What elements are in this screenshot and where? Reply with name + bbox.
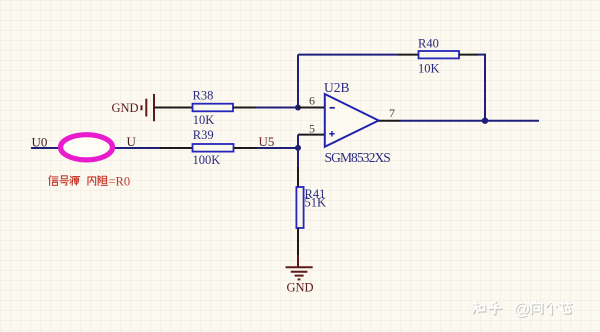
resistor R38 xyxy=(193,104,234,112)
annotation red text: 信号源 内阻=R0 xyxy=(49,176,107,186)
power ground GND (top-left power port) xyxy=(142,94,155,121)
svg-text:6: 6 xyxy=(309,94,315,108)
wire R39 to node U5 xyxy=(234,147,257,149)
wire node U5 down to R41 xyxy=(297,148,299,167)
wire feedback down to output node xyxy=(484,54,486,121)
svg-text:U2B: U2B xyxy=(324,80,350,95)
wire R38 to node 6 (black pin lead then navy wire) xyxy=(233,107,256,109)
wire pin5 down to node U5 xyxy=(297,135,299,148)
junction node 6 xyxy=(295,105,301,111)
svg-text:U: U xyxy=(127,134,137,149)
wire node 6 up to feedback xyxy=(297,55,299,108)
watermark: 知乎 @问个芯 xyxy=(473,302,572,314)
wire output to right xyxy=(400,120,539,122)
svg-text:@: @ xyxy=(513,300,530,319)
svg-text:U5: U5 xyxy=(259,134,275,149)
wire GND to R38 xyxy=(154,107,193,109)
op-amp U2B xyxy=(325,94,379,147)
resistor R40 xyxy=(419,51,460,58)
wire R41 to ground xyxy=(297,228,299,255)
svg-text:=R0: =R0 xyxy=(109,174,131,188)
wire feedback top run xyxy=(298,54,398,56)
svg-text:R38: R38 xyxy=(193,89,214,103)
op-amp minus input mark xyxy=(330,107,335,109)
pin 7 output lead xyxy=(379,120,400,122)
junction output node xyxy=(482,118,488,124)
svg-text:100K: 100K xyxy=(193,153,221,167)
svg-text:10K: 10K xyxy=(418,62,440,76)
svg-text:GND: GND xyxy=(287,281,314,295)
wire U0 input line xyxy=(31,147,160,149)
svg-text:10K: 10K xyxy=(193,113,215,127)
junction node U5 xyxy=(295,145,301,151)
svg-text:GND: GND xyxy=(112,101,139,115)
svg-text:5: 5 xyxy=(309,122,315,136)
svg-text:R40: R40 xyxy=(418,37,439,51)
pin 6 lead xyxy=(298,107,325,109)
svg-text:R39: R39 xyxy=(193,128,214,142)
earth ground (bottom) xyxy=(286,267,313,279)
resistor R39 xyxy=(193,144,234,152)
highlight ellipse (signal source) xyxy=(61,135,113,160)
op-amp plus input mark xyxy=(329,131,334,136)
wire R40 to output corner xyxy=(459,54,478,56)
resistor R41 xyxy=(296,187,303,228)
pin 5 lead xyxy=(298,134,325,136)
svg-text:SGM8532XS: SGM8532XS xyxy=(325,150,391,165)
svg-text:7: 7 xyxy=(389,106,395,120)
svg-text:51K: 51K xyxy=(305,196,327,210)
